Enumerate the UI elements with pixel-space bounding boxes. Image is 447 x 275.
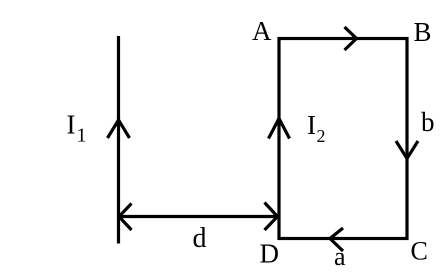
wire I1 (long straight conductor) (117, 36, 120, 244)
svg-text:B: B (414, 17, 432, 47)
label I2 (307, 110, 326, 146)
svg-text:2: 2 (317, 126, 326, 146)
arrowhead: dimension d left end (119, 204, 132, 231)
dimension line for distance d (double arrow between wire and loop) (120, 215, 276, 218)
rectangular loop ABCD (279, 39, 407, 239)
svg-text:C: C (411, 237, 428, 266)
svg-text:d: d (193, 223, 207, 254)
arrowhead: dimension d right end (265, 203, 278, 231)
svg-text:I: I (67, 110, 76, 140)
svg-text:I: I (307, 110, 316, 140)
arrowhead: current on side C-D (left), label a side (330, 228, 343, 251)
svg-text:D: D (260, 239, 280, 269)
arrowhead: current on side A-B (right) (345, 27, 357, 50)
svg-text:1: 1 (77, 125, 87, 147)
svg-text:A: A (252, 16, 272, 46)
arrowhead: current on side B-C (down), label b side (396, 141, 418, 159)
svg-text:a: a (334, 242, 346, 271)
label I1 (67, 110, 87, 147)
arrowhead: current I1 direction (up) on wire (108, 120, 130, 138)
svg-text:b: b (421, 107, 435, 137)
arrowhead: current I2 on side D-A (up) (269, 119, 290, 139)
